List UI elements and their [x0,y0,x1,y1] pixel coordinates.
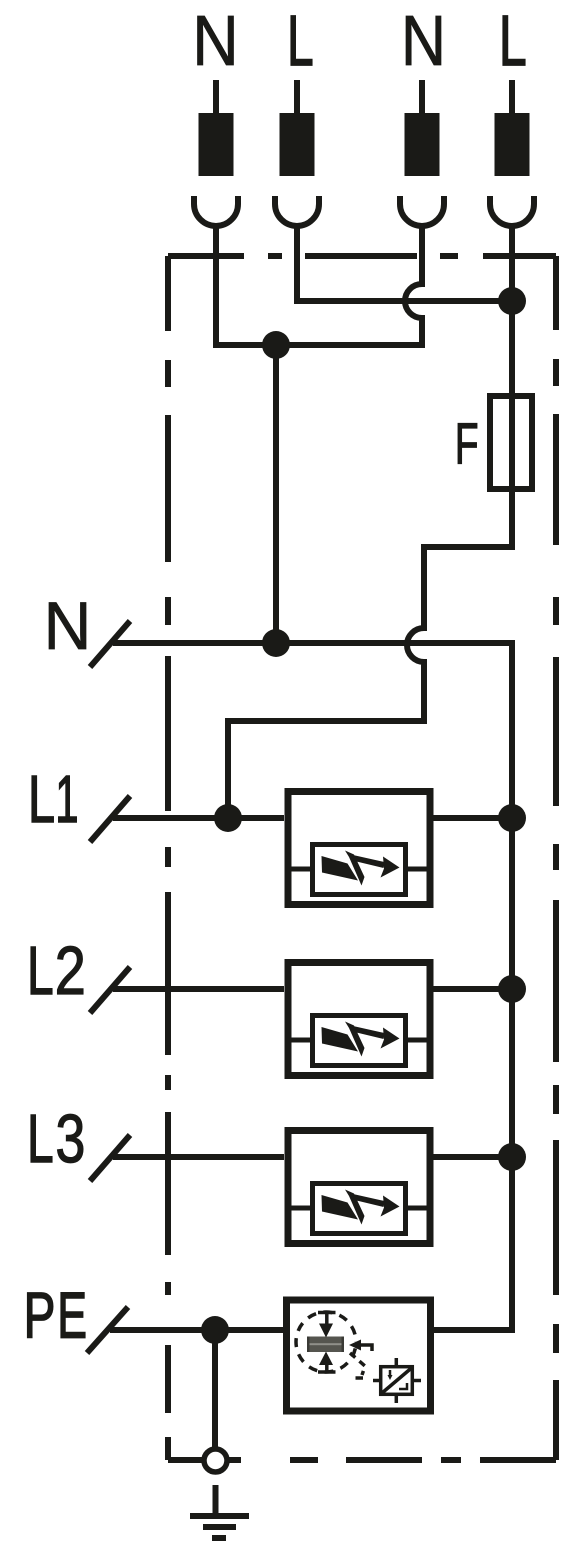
junction dot L1 right bus [498,804,526,832]
junction dot N terminal bus [262,331,290,359]
disconnect slash L3 [90,1135,130,1181]
wire N bus riser from terminals to N line [273,345,279,643]
enclosure border right (dash-dot) [553,256,559,1460]
spark gap electrodes [307,1337,344,1353]
wire terminal L2 down through fuse [509,226,515,547]
label L2 input [31,946,83,994]
spark gap box N-PE [287,1300,431,1411]
disconnect slash L1 [90,796,130,842]
wire L3 line left [113,1154,284,1160]
ground symbol [190,1513,249,1519]
wire terminal N1 down [213,226,219,348]
disconnect slash PE [87,1307,128,1353]
wire terminal N2 down with hop over L bus [405,226,422,348]
terminal N2 (plug and socket) [400,80,444,226]
enclosure border top (dash-dot) [168,253,556,259]
wire L2 line right [433,986,512,992]
wire L1 line left [113,815,284,821]
arrow bottom into gap [318,1364,336,1372]
wire N line [113,640,512,646]
junction dot N line [262,629,290,657]
terminal N1 (plug and socket) [194,80,238,226]
dashed circle (gas discharge tube) [296,1312,356,1372]
enclosure border left (dash-dot) [165,256,171,1460]
label N top terminal 3 [406,16,441,65]
surge arrester (varistor) box L1 [288,792,430,905]
wire PE down to earth [212,1330,218,1447]
junction dot L terminal bus [498,287,526,315]
label F [458,423,477,463]
trigger circuit square [381,1367,413,1395]
wire fuse output to L1 feed with hop over N line [228,547,515,818]
surge arrester (varistor) box L3 [288,1131,430,1244]
junction dot PE [201,1316,229,1344]
wire N terminal bus horizontal [213,342,422,348]
disconnect slash N [90,621,130,667]
terminal L1 (plug and socket) [275,80,319,226]
wire L1 line right [433,815,512,821]
label L top terminal 2 [291,16,312,65]
wire L3 line right [433,1154,512,1160]
label N top terminal 1 [198,16,234,65]
terminal L2 (plug and socket) [490,80,534,226]
disconnect slash L2 [90,967,130,1013]
trigger dashed line [350,1353,365,1375]
arrow top into gap [318,1313,336,1327]
wire terminal L1 down and L terminal bus [297,226,512,301]
junction dot L2 right bus [498,975,526,1003]
label N input [49,603,86,649]
trigger arrowhead [349,1340,361,1351]
wire N right bus down to spark gap [433,643,512,1330]
terminal circle on bottom border [204,1449,227,1472]
wire PE line [110,1327,283,1333]
junction dot L3 right bus [498,1143,526,1171]
enclosure border bottom (dash-dot) [168,1457,556,1463]
earth stem [213,1485,219,1515]
wire L2 line left [113,986,284,992]
label L1 input [32,776,77,822]
surge arrester (varistor) box L2 [288,963,430,1076]
label L top terminal 4 [503,16,525,65]
label PE input [28,1293,85,1338]
junction dot L feed at L1 [214,804,242,832]
label L3 input [31,1114,83,1162]
fuse F [490,396,532,489]
